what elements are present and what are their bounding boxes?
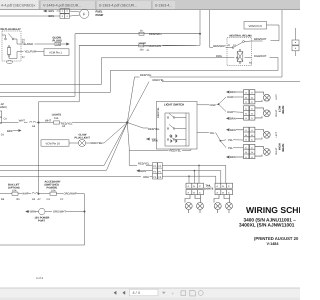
light switch internal wires — [185, 113, 187, 146]
arrow BRK branch — [13, 130, 19, 132]
svg-text:4-4.pdf (SECURED): 4-4.pdf (SECURED) — [1, 4, 33, 8]
svg-text:BRN: BRN — [230, 118, 236, 121]
svg-text:LEFT: LEFT — [275, 94, 278, 100]
wire BL/RED to glow plugs — [21, 43, 23, 45]
YEL wires to high beams — [197, 132, 243, 147]
svg-text:SPARE: SPARE — [139, 42, 147, 45]
svg-text:0-1363-4...: 0-1363-4... — [155, 4, 172, 8]
svg-text:BRN: BRN — [230, 156, 236, 159]
wire ground rail y=92.5 to neutral relay coil DG/WHT — [0, 58, 278, 93]
wire RED/YEL star to light switch — [127, 123, 148, 129]
connector tail light left (A B C x2) — [186, 183, 204, 188]
right edge feed — [282, 10, 299, 77]
svg-text:V-1484: V-1484 — [267, 242, 280, 246]
light switch box — [129, 101, 197, 150]
svg-text:WER): WER) — [0, 106, 7, 109]
svg-text:RIGHT: RIGHT — [275, 109, 278, 117]
lamp tail lights left pair — [185, 195, 190, 203]
light switch inner box — [165, 113, 189, 146]
fuse LIGHTS 20A — [54, 121, 60, 124]
svg-text:WHT: WHT — [19, 120, 25, 123]
connector right high beam with lamp — [226, 144, 270, 158]
tail lamps — [185, 195, 233, 213]
svg-text:WHT: WHT — [22, 193, 28, 196]
wire box lift row with fuse 15A — [0, 193, 12, 195]
connector options P2/P1/P3 — [153, 163, 158, 179]
svg-text:BL/RED: BL/RED — [24, 43, 34, 46]
feed wire to star — [0, 111, 127, 132]
svg-text:×: × — [33, 3, 36, 8]
connector left high beam with lamp — [226, 127, 270, 141]
wire BL/RED to glow plugs — [21, 42, 70, 45]
wire BRN to fuel pump connector — [57, 10, 61, 12]
wire BRN/WHT feed from top to neutral relay pin A1 — [210, 10, 213, 48]
svg-text:WHT: WHT — [45, 120, 51, 123]
svg-text:PLUG LIGHT: PLUG LIGHT — [75, 136, 91, 139]
svg-text:BRN: BRN — [30, 211, 36, 214]
wire BRN lower row from left edge — [0, 15, 60, 17]
svg-text:V-1449-4.pdf (SECUR...: V-1449-4.pdf (SECUR... — [43, 4, 81, 8]
svg-text:15A: 15A — [140, 49, 145, 52]
light switch diodes — [171, 134, 173, 138]
svg-text:DRG: DRG — [216, 55, 222, 58]
svg-text:20A: 20A — [54, 117, 59, 120]
connector left low beam with lamp — [226, 90, 270, 104]
12V power port symbol — [39, 208, 45, 214]
svg-text:BRN: BRN — [230, 91, 236, 94]
glow plug relay enclosure — [2, 31, 21, 61]
svg-text:BEAM: BEAM — [282, 143, 285, 152]
svg-text:OGR: OGR — [210, 104, 216, 107]
svg-text:RED/YEL: RED/YEL — [153, 79, 165, 82]
svg-text:RED/YEL: RED/YEL — [140, 74, 152, 77]
fuel pump circuit — [0, 9, 89, 19]
P connector (options) — [153, 163, 163, 179]
svg-text:3400 (S/N AJNU11001 –: 3400 (S/N AJNU11001 – — [244, 217, 297, 223]
wire RED/YEL rail 2 (y=81.7) from star — [127, 82, 149, 123]
connector fuel pump (2x2 inline) — [60, 9, 65, 14]
wire YEL light switch to high beams — [197, 131, 209, 133]
light switch outer box — [156, 101, 197, 149]
VCM Pin 16 box — [41, 140, 69, 146]
svg-text:ORG/WHT: ORG/WHT — [53, 211, 66, 214]
wire RED/YEL star to glow plug light — [101, 123, 127, 144]
wire loop B: feed to A4 junction and box lift row — [39, 34, 201, 194]
svg-text:YEL: YEL — [228, 139, 234, 142]
svg-text:LEFT: LEFT — [275, 131, 278, 137]
svg-text:C0: C0 — [4, 118, 8, 121]
svg-text:C3: C3 — [47, 198, 51, 201]
wire bus options connector to tail lights — [162, 165, 226, 183]
nav icons — [114, 291, 117, 295]
svg-text:4 / 4: 4 / 4 — [133, 291, 140, 295]
svg-text:BRN: BRN — [49, 15, 55, 18]
svg-text:RED/YEL: RED/YEL — [138, 163, 150, 166]
wire RED/YEL rail 1 (y=77) from star — [127, 77, 139, 123]
svg-text:RED/YEL: RED/YEL — [170, 150, 182, 153]
connector inline pair at right edge — [295, 28, 297, 40]
wire loop C: left rail y=84.6 to neutral relay coil DRG — [0, 58, 227, 85]
wire RED/YEL under light switch — [129, 149, 168, 151]
svg-text:4 of 4: 4 of 4 — [36, 276, 43, 280]
svg-text:(PRINTED AUGUST 20: (PRINTED AUGUST 20 — [254, 236, 299, 241]
neutral relay contacts — [232, 47, 234, 49]
wire ORG/WHT accessory down and left to edge — [0, 194, 85, 245]
wire YEL/PUR to VCM Pin 1 — [21, 49, 69, 56]
light switch poles — [167, 117, 169, 119]
wire RED/GRN upper with fuse — [76, 33, 139, 35]
title block — [239, 205, 320, 246]
svg-text:RED/YEL: RED/YEL — [91, 142, 103, 145]
svg-text:BRK: BRK — [7, 130, 13, 133]
wire RED/GRN lower with fuse 15A — [80, 44, 139, 46]
tail light connectors — [186, 183, 233, 194]
node A4 junction dot and wire to fuse — [37, 122, 54, 124]
wire feed right edge x=282 to RED/YEL rail — [281, 10, 283, 77]
svg-text:BRN: BRN — [140, 170, 146, 173]
svg-text:0-1363-4.pdf (SECUR...: 0-1363-4.pdf (SECUR... — [99, 4, 137, 8]
wire RED/YEL star down to options connector row P2 — [127, 123, 137, 166]
star junction and rays — [0, 77, 300, 170]
svg-text:D1: D1 — [1, 134, 5, 137]
node star junction (127,122.5) — [126, 121, 128, 123]
svg-text:RED/GRN: RED/GRN — [149, 45, 161, 48]
VCM Pin 6 box — [244, 22, 267, 30]
wire star to left rails y=165.5 and y=170.3 — [0, 123, 127, 166]
svg-text:BEAM: BEAM — [282, 105, 285, 114]
svg-text:PUMP: PUMP — [96, 14, 104, 17]
ground arrow (fuel pump BRN) — [44, 10, 48, 12]
connector C0 at left edge — [0, 111, 2, 117]
neutral relay feed from top — [210, 10, 230, 48]
12V power port — [25, 208, 84, 214]
svg-text:BRN: BRN — [49, 10, 55, 13]
svg-text:YEL: YEL — [228, 147, 234, 150]
ground arrow BRN light switch — [152, 138, 157, 140]
VCM pin16 + glow plug light — [41, 139, 90, 146]
node junction at (200,33.7) — [199, 33, 201, 35]
svg-text:ORG/WHT: ORG/WHT — [64, 193, 77, 196]
glow plug relay coil — [8, 46, 10, 48]
bottom toolbar — [0, 288, 300, 300]
wire RED/YEL fuse to star — [72, 122, 127, 124]
neutral relay — [227, 38, 252, 66]
svg-text:BRN/WHT: BRN/WHT — [254, 38, 267, 41]
neutral relay enclosure — [227, 38, 252, 66]
svg-text:15A: 15A — [51, 190, 56, 193]
svg-text:VCM Pin 16: VCM Pin 16 — [46, 143, 61, 146]
svg-text:GLOW PLUG RELAY: GLOW PLUG RELAY — [0, 28, 21, 31]
wire connector to fuel pump motor — [69, 11, 80, 12]
svg-text:VCM Pin 6: VCM Pin 6 — [249, 24, 263, 28]
svg-text:OGR: OGR — [227, 111, 233, 114]
svg-text:BRN/WHT: BRN/WHT — [213, 45, 226, 48]
OGR wires to low beams — [197, 97, 243, 112]
svg-text:OGR: OGR — [227, 96, 233, 99]
svg-text:+: + — [172, 291, 175, 296]
svg-text:PORT: PORT — [38, 220, 46, 223]
svg-text:RIGHT: RIGHT — [275, 147, 278, 155]
browser tab bar — [0, 0, 300, 10]
wire OGR light switch to low beams — [197, 104, 209, 106]
headlight connector groups — [226, 90, 270, 159]
connector tail light right (A B C x2) — [215, 183, 233, 188]
svg-text:RED/YEL: RED/YEL — [157, 107, 160, 118]
svg-text:DG8/WHT: DG8/WHT — [254, 55, 267, 58]
fuel pump motor F — [80, 9, 89, 18]
svg-text:RED/GRN: RED/GRN — [149, 33, 161, 36]
lamp tail lights right pair — [214, 195, 219, 203]
svg-text:ORG: ORG — [143, 176, 149, 179]
svg-text:3400XL (S/N AJNW11001: 3400XL (S/N AJNW11001 — [239, 223, 295, 229]
svg-text:15A: 15A — [12, 190, 17, 193]
svg-text:PLUGS: PLUGS — [53, 40, 62, 43]
wire VCM Pin 6 to relay BRN/WHT — [267, 25, 280, 41]
svg-text:14B: 14B — [56, 43, 61, 46]
svg-text:YEL/PUR: YEL/PUR — [25, 51, 37, 54]
glow plug relay contacts — [5, 38, 7, 40]
cell letters G1..G4 — [245, 92, 253, 159]
wire WHT key switch feed y=122.5 — [0, 122, 19, 124]
wire loop A: battery feed top junction to left rail y=96 — [0, 10, 200, 96]
svg-text:WIRING SCHEMATIC: WIRING SCHEMATIC — [246, 205, 300, 215]
fuses on RED/GRN wires — [76, 32, 200, 47]
svg-text:BRN: BRN — [230, 129, 236, 132]
VCM Pin 6 box and wires — [244, 22, 279, 42]
ORG long line into P connector — [0, 169, 153, 176]
left power loops — [0, 10, 278, 194]
svg-text:LIGHT SWITCH: LIGHT SWITCH — [164, 102, 184, 106]
svg-text:C2: C2 — [60, 198, 64, 201]
tail light bus — [162, 165, 226, 184]
wire ORG rail y=176.5 to options connector — [0, 176, 141, 178]
svg-text:LIGHTS: LIGHTS — [204, 188, 214, 191]
connector A4 halves — [30, 121, 36, 122]
svg-text:RED/YEL: RED/YEL — [148, 128, 160, 131]
svg-text:YEL: YEL — [210, 132, 216, 135]
ground arrow BRN options connector — [136, 169, 139, 172]
wire YEL/PUR — [21, 51, 24, 53]
tail lights — [188, 185, 231, 194]
svg-text:VCM Pin 1: VCM Pin 1 — [49, 52, 62, 55]
wire relay contact to terminal D1 — [14, 38, 17, 40]
lamp glow plug light — [78, 139, 85, 146]
ground arrow BRN 12V power port — [25, 210, 28, 213]
connector right low beam with lamp — [226, 106, 270, 120]
svg-text:NEUTRAL RELAY: NEUTRAL RELAY — [230, 35, 252, 38]
glow plug relay mounting tab — [7, 61, 13, 64]
box lift / accessory row — [0, 192, 86, 245]
svg-text:5A: 5A — [140, 30, 143, 33]
svg-text:BRN: BRN — [152, 139, 158, 142]
fuse accessory 15A — [50, 192, 57, 195]
neutral relay coil — [239, 49, 241, 51]
